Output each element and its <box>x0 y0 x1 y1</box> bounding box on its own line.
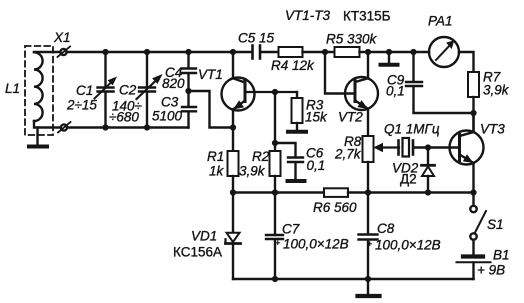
svg-text:5100: 5100 <box>152 109 183 124</box>
svg-text:VT2: VT2 <box>338 110 363 125</box>
switch S1 <box>472 193 474 206</box>
svg-text:B1: B1 <box>493 248 510 263</box>
capacitor C9 0,1 <box>412 52 414 82</box>
transistor VT1 <box>222 78 255 111</box>
capacitor C6 0,1 <box>288 156 303 158</box>
inductor L1 coil <box>34 52 43 121</box>
wire L1 top lead <box>34 51 60 53</box>
svg-text:S1: S1 <box>487 217 504 232</box>
wire bottom-left rail X1 to C3 <box>67 126 189 128</box>
svg-text:R4 12k: R4 12k <box>271 58 315 73</box>
ground under R3 <box>296 123 298 131</box>
svg-text:R5 330k: R5 330k <box>326 32 378 47</box>
svg-text:0,1: 0,1 <box>307 158 326 173</box>
resistor R3 15k <box>296 92 298 98</box>
wire VT2 base drop <box>325 52 355 94</box>
svg-text:C5 15: C5 15 <box>238 31 275 46</box>
svg-text:Q1 1МГц: Q1 1МГц <box>384 122 440 137</box>
capacitor C5 15 <box>251 46 254 59</box>
meter PA1 <box>429 37 459 67</box>
diode VD2 D2 <box>427 148 429 165</box>
svg-text:L1: L1 <box>5 81 20 96</box>
ground on top rail <box>388 52 390 64</box>
wire bottom rail <box>233 278 474 280</box>
svg-text:2÷15: 2÷15 <box>66 98 97 113</box>
svg-text:X1: X1 <box>53 30 71 45</box>
wire VT1 emitter node down to R1 <box>232 128 234 152</box>
resistor R1 1k <box>228 151 239 176</box>
connector X1 contact top <box>60 49 66 55</box>
capacitor C1 (variable 2-15) <box>104 52 106 87</box>
wire L1 bottom lead <box>34 121 61 128</box>
svg-text:КТ315Б: КТ315Б <box>343 9 391 24</box>
svg-text:+: + <box>367 239 372 249</box>
svg-text:0,1: 0,1 <box>386 84 405 99</box>
wire top rail from X1 to C5 <box>67 51 253 53</box>
ground under C6 <box>294 163 296 180</box>
svg-text:+: + <box>275 238 280 248</box>
resistor R6 560 <box>324 188 348 197</box>
transistor VT3 <box>450 131 484 165</box>
svg-text:R1: R1 <box>207 149 224 164</box>
svg-text:+ 9В: + 9В <box>477 263 505 278</box>
svg-text:C8: C8 <box>377 221 395 236</box>
svg-text:3,9k: 3,9k <box>239 164 266 179</box>
resistor R5 330k <box>335 47 360 57</box>
svg-text:C7: C7 <box>282 222 300 237</box>
wiper arrow into R8 <box>381 146 399 148</box>
battery B1 9V <box>463 254 483 258</box>
svg-text:100,0×12В: 100,0×12В <box>283 237 349 252</box>
connector X1 contact bottom <box>61 124 67 130</box>
resistor R8 2,7k (trimmer) <box>363 136 374 162</box>
resistor R7 3,9k <box>468 72 479 97</box>
svg-text:R2: R2 <box>252 149 270 164</box>
wire base node down to R2 <box>274 92 276 151</box>
svg-text:C3: C3 <box>161 95 179 110</box>
svg-text:VT1: VT1 <box>198 67 223 82</box>
wire mid rail left <box>233 191 324 193</box>
capacitor C4 820 <box>187 52 189 68</box>
svg-text:1k: 1k <box>209 164 225 179</box>
svg-text:15k: 15k <box>305 110 328 125</box>
svg-text:2,7k: 2,7k <box>334 147 362 162</box>
capacitor C7 100,0x12V <box>274 193 276 235</box>
svg-text:Д2: Д2 <box>400 172 417 187</box>
capacitor C8 100,0x12V <box>367 193 369 235</box>
wire mid rail right <box>348 191 474 193</box>
svg-text:PA1: PA1 <box>428 14 453 29</box>
diode VD1 KC156A (zener) <box>232 193 234 232</box>
svg-text:C2: C2 <box>119 83 137 98</box>
svg-text:КС156А: КС156А <box>173 245 222 260</box>
quartz Q1 1MHz <box>397 141 400 155</box>
capacitor C2 (variable 140-680) <box>146 52 148 87</box>
resistor R4 12k <box>279 47 303 57</box>
svg-text:R6 560: R6 560 <box>313 200 357 215</box>
wire C4/C3 tap to VT1 emitter <box>189 91 234 128</box>
inductor L1 dashed screen box <box>25 46 53 135</box>
capacitor C3 5100 <box>182 106 196 108</box>
svg-text:C1: C1 <box>76 83 93 98</box>
svg-text:VT1-T3: VT1-T3 <box>285 8 331 23</box>
resistor R2 3,9k <box>270 151 281 176</box>
svg-text:100,0×12В: 100,0×12В <box>375 238 441 253</box>
transistor VT2 <box>345 77 378 110</box>
svg-text:VD1: VD1 <box>191 229 217 244</box>
svg-text:÷680: ÷680 <box>109 110 139 125</box>
svg-text:VT3: VT3 <box>480 122 505 137</box>
ground (antenna circuit) <box>36 128 38 146</box>
ground bottom center <box>367 279 369 295</box>
wire R2 tap to C6 <box>275 143 296 157</box>
svg-text:3,9k: 3,9k <box>483 83 510 98</box>
svg-text:820: 820 <box>162 76 185 91</box>
